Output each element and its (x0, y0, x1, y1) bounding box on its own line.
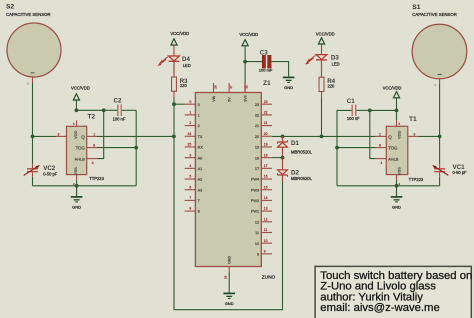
Z1 left pin names (198, 103, 204, 214)
IC T2 TTP223 body (67, 126, 87, 174)
Z1 top pin numbers (213, 85, 248, 89)
Z1 left pin numbers (188, 100, 192, 211)
C1 labels (347, 98, 360, 121)
svg-text:9: 9 (257, 252, 259, 256)
annotation box (315, 266, 471, 318)
svg-text:Q: Q (81, 134, 85, 139)
svg-text:VCC/VDD: VCC/VDD (383, 85, 402, 90)
T2 pin names (73, 130, 86, 175)
svg-text:0-50 pF: 0-50 pF (43, 172, 58, 177)
wire C1 node to T1 VDD node (370, 109, 397, 111)
svg-text:VCC/VDD: VCC/VDD (71, 85, 90, 90)
svg-text:T1: T1 (409, 116, 417, 123)
svg-text:17: 17 (264, 164, 268, 168)
T2 pin numbers (58, 122, 96, 186)
svg-text:4: 4 (380, 161, 382, 165)
svg-text:1: 1 (198, 113, 200, 117)
svg-text:100 nF: 100 nF (113, 116, 126, 121)
svg-text:VIN: VIN (212, 95, 216, 101)
svg-text:2: 2 (198, 124, 200, 128)
svg-text:S1: S1 (412, 4, 420, 11)
svg-text:TTP223: TTP223 (409, 177, 424, 182)
S1 pin 1 marker (434, 83, 436, 87)
capacitor C2 (118, 105, 122, 117)
svg-text:C1: C1 (347, 98, 355, 105)
svg-text:VDD: VDD (73, 130, 78, 139)
ground T2 (71, 186, 83, 210)
svg-text:220: 220 (180, 83, 188, 88)
svg-text:GND: GND (225, 301, 234, 306)
S2 pin 1 marker (27, 82, 29, 86)
svg-text:S2: S2 (6, 3, 14, 10)
svg-text:20: 20 (255, 135, 259, 139)
capacitor VC1 (433, 164, 449, 177)
svg-text:19: 19 (264, 143, 268, 147)
junction TOG-x136 (134, 146, 138, 150)
wire R4 to pin20 net (321, 92, 323, 137)
wire sensor S1 drop (439, 79, 441, 164)
junction top-x369 (368, 109, 372, 113)
junction VCC-3V3 (243, 60, 247, 64)
wire T1 VSS to rail (396, 180, 398, 186)
svg-text:3V3: 3V3 (243, 95, 247, 101)
wire T1 TOG to x337 (337, 147, 376, 149)
LED D4 (158, 56, 191, 68)
svg-text:ZUNO: ZUNO (262, 275, 276, 281)
svg-text:18: 18 (255, 156, 259, 160)
junction node pin0 (172, 102, 176, 106)
svg-text:3: 3 (189, 153, 191, 157)
T1 pin names (388, 130, 401, 175)
svg-text:19: 19 (255, 146, 259, 150)
svg-text:13: 13 (264, 207, 268, 211)
svg-text:PW2: PW2 (251, 199, 259, 203)
wire node pin0 to Z-Uno pin 0 (174, 103, 185, 105)
svg-text:20: 20 (264, 132, 268, 136)
junction node A (Q/pin0 riser) (172, 135, 176, 139)
junction VSS-rail right (395, 184, 399, 188)
svg-text:VSS: VSS (396, 167, 401, 175)
svg-text:MBR0520L: MBR0520L (291, 176, 313, 181)
resistor R4 (319, 77, 336, 91)
wire T2 Q to node A (97, 135, 174, 137)
diode D1 MBR0520L (278, 136, 288, 157)
svg-text:26: 26 (213, 85, 217, 89)
svg-text:12: 12 (264, 217, 268, 221)
svg-text:A0: A0 (198, 156, 203, 160)
junction D1-top (281, 135, 285, 139)
svg-text:220: 220 (328, 83, 336, 88)
junction sensor-pin3 (31, 135, 35, 139)
svg-text:10: 10 (264, 239, 268, 243)
capacitive sensor S2 (6, 3, 61, 77)
wire R3 to node pin0 (173, 91, 175, 104)
C2 labels (113, 97, 126, 121)
svg-text:9: 9 (264, 249, 266, 253)
power VCC/VDD (T1) (383, 85, 402, 110)
svg-text:3: 3 (413, 132, 415, 136)
svg-text:VCC/VDD: VCC/VDD (170, 31, 189, 36)
wire pin20 net (Z-Uno 20 - D1 - R4 - T1 Q) (272, 135, 376, 137)
svg-text:1: 1 (379, 132, 381, 136)
svg-text:1: 1 (93, 132, 95, 136)
svg-text:11: 11 (264, 228, 268, 232)
svg-text:LED: LED (183, 63, 191, 68)
svg-text:18: 18 (264, 153, 268, 157)
svg-text:100 nF: 100 nF (347, 116, 360, 121)
resistor R3 (172, 77, 189, 91)
junction D1-D2 (281, 156, 285, 160)
svg-text:RX: RX (198, 146, 204, 150)
wire C1 left riser (to TOG and rail) (337, 110, 352, 185)
svg-text:8: 8 (189, 207, 191, 211)
power VCC/VDD (Z1) (239, 32, 258, 62)
svg-text:CAPACITIVE SENSOR: CAPACITIVE SENSOR (6, 12, 51, 17)
wire T2 TOG to x136 (97, 147, 136, 149)
svg-text:MBR0520L: MBR0520L (291, 150, 313, 155)
capacitive sensor S1 (412, 4, 467, 79)
svg-text:VCC/VDD: VCC/VDD (239, 32, 258, 37)
Z1 ZUNO label (262, 275, 276, 281)
Z1 ref label (263, 80, 271, 87)
T2 pin stubs (56, 120, 97, 180)
svg-text:12: 12 (255, 220, 259, 224)
diode D2 MBR0520L (278, 158, 288, 182)
svg-text:5V: 5V (228, 97, 232, 102)
svg-text:VCC/VDD: VCC/VDD (316, 31, 335, 36)
wire C3 to ground (272, 62, 289, 77)
svg-text:23: 23 (264, 100, 268, 104)
Z1 right pin names (251, 103, 259, 257)
svg-text:6: 6 (189, 185, 191, 189)
Z1 left pin stubs (185, 104, 196, 211)
svg-text:14: 14 (264, 196, 268, 200)
svg-text:Z1: Z1 (263, 80, 271, 87)
svg-text:3: 3 (58, 132, 60, 136)
svg-text:16: 16 (264, 175, 268, 179)
svg-text:D1: D1 (291, 140, 299, 147)
svg-text:25: 25 (188, 143, 192, 147)
IC Z1 Z-Uno body (195, 93, 261, 267)
wire VC1 to corner (439, 177, 441, 186)
junction R4-bottom (320, 135, 324, 139)
wire T2 VSS to rail (76, 180, 78, 186)
junction T2-VDD node (75, 108, 79, 112)
junction T1-VDD node (395, 109, 399, 113)
LED D3 (306, 55, 340, 67)
svg-text:TOG: TOG (388, 145, 398, 150)
svg-text:TX: TX (198, 135, 203, 139)
wire 3V3 pin riser (244, 62, 246, 93)
wire VDD node to C2 (76, 109, 117, 111)
svg-text:C2: C2 (114, 97, 122, 104)
IC T1 TTP223 body (386, 126, 408, 174)
svg-text:0-50 pF: 0-50 pF (453, 170, 468, 175)
Z1 top pin stubs (214, 83, 245, 93)
Z1 right pin stubs (261, 104, 272, 254)
svg-text:4: 4 (189, 164, 191, 168)
svg-text:27: 27 (229, 85, 233, 89)
annotation text (320, 270, 472, 314)
svg-text:7: 7 (189, 196, 191, 200)
svg-text:1: 1 (189, 110, 191, 114)
Z1 right pin numbers (264, 100, 268, 254)
svg-text:8: 8 (379, 144, 381, 148)
capacitor C1 (352, 105, 356, 116)
T2 labels (88, 113, 105, 181)
svg-text:GND: GND (72, 205, 81, 210)
svg-text:LED: LED (332, 61, 340, 66)
D1 labels (291, 140, 313, 155)
svg-text:8: 8 (93, 144, 95, 148)
svg-text:GND: GND (227, 256, 231, 264)
T1 pin numbers (379, 122, 415, 186)
svg-text:4: 4 (92, 161, 94, 165)
svg-text:2: 2 (189, 121, 191, 125)
junction VSS-rail (75, 184, 79, 188)
wire T1 pin3 to sensor net (419, 135, 440, 137)
Z1 top pin names (212, 95, 247, 101)
wire D4 to R3 (173, 61, 175, 77)
svg-text:0: 0 (198, 103, 200, 107)
wire C2 to corner x136 (122, 109, 136, 111)
T1 labels (409, 116, 424, 182)
svg-text:VSS: VSS (73, 167, 78, 175)
power VCC/VDD (D3) (316, 31, 335, 54)
svg-text:A3: A3 (198, 188, 203, 192)
wire S2 to node VC2-top (32, 77, 34, 164)
svg-text:AHLB: AHLB (388, 156, 399, 161)
wire D3 to R4 (321, 60, 323, 77)
wire long loop (pin0 riser, bottom run, D2 anode riser) (174, 104, 283, 310)
svg-text:22: 22 (255, 113, 259, 117)
svg-text:email: aivs@z-wave.me: email: aivs@z-wave.me (320, 302, 439, 314)
wire VCC to C3 (245, 61, 262, 63)
wire ground rail left (33, 185, 137, 187)
svg-text:Q: Q (388, 134, 392, 139)
svg-text:TOG: TOG (76, 145, 86, 150)
svg-text:5: 5 (189, 175, 191, 179)
svg-text:A1: A1 (198, 167, 203, 171)
wire AHLB riser x369 (370, 110, 376, 158)
svg-text:17: 17 (255, 167, 259, 171)
svg-text:C3: C3 (260, 49, 268, 56)
svg-text:0: 0 (189, 100, 191, 104)
junction sensor-pin3 right (438, 135, 442, 139)
C3 labels (259, 49, 273, 72)
Z1 bottom pin GND (223, 256, 235, 306)
ground C3 (283, 77, 295, 90)
VC1 labels (453, 164, 468, 175)
capacitor VC2 (24, 164, 40, 177)
power VCC/VDD (T2) (71, 85, 90, 110)
svg-text:29: 29 (224, 275, 228, 279)
wire C1 to AHLB riser (356, 109, 370, 111)
svg-text:T2: T2 (88, 113, 96, 120)
wire pin18 to D1/D2 node (272, 157, 283, 159)
svg-text:AHLB: AHLB (75, 156, 86, 161)
svg-text:PW3: PW3 (251, 188, 259, 192)
power VCC/VDD (D4) (170, 31, 189, 56)
svg-text:24: 24 (188, 132, 192, 136)
junction T1-TOG-x337 (335, 146, 339, 150)
wire T2 pin3 to sensor net (33, 135, 57, 137)
svg-text:PW1: PW1 (251, 210, 259, 214)
svg-text:GND: GND (284, 85, 293, 90)
svg-text:7: 7 (198, 199, 200, 203)
wire T1 VDD (396, 110, 398, 120)
svg-text:10: 10 (255, 242, 259, 246)
svg-text:11: 11 (255, 231, 259, 235)
wire vertical x136 (C2/TOG to GND rail) (135, 110, 137, 186)
svg-text:15: 15 (264, 185, 268, 189)
svg-text:VDD: VDD (396, 130, 401, 139)
svg-text:CAPACITIVE SENSOR: CAPACITIVE SENSOR (412, 12, 457, 17)
wire ground rail right (337, 185, 440, 187)
junction top-x103 (102, 108, 106, 112)
svg-text:A2: A2 (198, 178, 203, 182)
D2 labels (291, 170, 313, 181)
svg-text:21: 21 (264, 121, 268, 125)
svg-text:23: 23 (255, 103, 259, 107)
VC2 labels (43, 165, 58, 177)
wire AHLB riser x103 (97, 110, 104, 158)
svg-text:PW4: PW4 (251, 178, 259, 182)
svg-text:8: 8 (198, 210, 200, 214)
svg-text:21: 21 (255, 124, 259, 128)
svg-text:100 mF: 100 mF (259, 68, 273, 73)
T1 pin stubs (376, 120, 419, 180)
wire VC2 to corner (32, 177, 34, 186)
svg-text:22: 22 (264, 110, 268, 114)
svg-text:GND: GND (392, 205, 401, 210)
ground T1 (391, 186, 403, 210)
capacitor C3 (262, 55, 271, 68)
svg-text:TTP223: TTP223 (89, 176, 104, 181)
